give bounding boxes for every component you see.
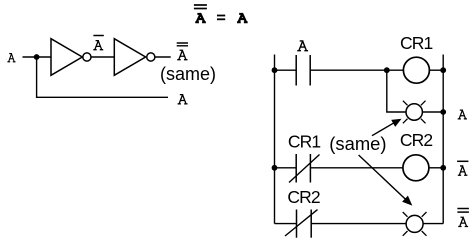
wire contact CR2 to lamp 2 — [311, 223, 406, 225]
junction dot rung1 branch — [384, 67, 390, 73]
right rail of ladder — [442, 55, 444, 224]
node A label right of lamp1 — [458, 110, 467, 119]
contact A (NO) — [296, 55, 310, 86]
wire coil CR1 to right rail — [429, 69, 443, 71]
arrow to lamp 2 — [359, 155, 413, 206]
arrow to lamp 1 — [372, 119, 402, 136]
coil CR2 — [403, 155, 429, 181]
lamp L1 — [403, 101, 426, 124]
title formula: A double-overline = A — [194, 5, 248, 23]
node A-double-bar label right of rung3 — [457, 209, 469, 227]
wire U1 to U2 — [91, 56, 114, 58]
rung 1: wire left rail to contact A — [275, 69, 297, 71]
junction dot rung2 right rail — [440, 165, 446, 171]
junction dot rung2 left rail — [272, 165, 278, 171]
rung 3: wire left rail to contact CR2 — [275, 223, 297, 225]
left rail of ladder — [274, 55, 276, 224]
contact CR2 (NC) — [285, 210, 318, 238]
contact CR1 (NC) — [289, 154, 320, 183]
inverter U1 triangle — [51, 39, 82, 76]
node A-bar label right of rung2 — [457, 161, 468, 175]
wire coil CR2 to right rail — [429, 167, 443, 169]
node A label lower right of gates — [178, 95, 188, 104]
svg-text:CR2: CR2 — [287, 187, 319, 207]
node A input label — [7, 54, 15, 62]
wire branch down to lamp 1 — [387, 70, 406, 112]
coil CR1 — [403, 57, 429, 83]
node A-bar label — [93, 36, 103, 50]
node A-double-bar output label — [177, 43, 188, 60]
wire contact CR1 to coil CR2 — [310, 167, 403, 169]
junction dot rung1 right rail — [440, 67, 446, 73]
label A above contact — [297, 41, 308, 51]
junction dot rung1 left rail — [272, 67, 278, 73]
wire feedback A below gates — [37, 57, 168, 97]
inverter U1 bubble — [83, 53, 91, 61]
lamp L2 — [403, 212, 427, 236]
inverter U2 triangle — [114, 39, 145, 76]
wire input A to inverter U1 — [23, 56, 52, 58]
junction dot input node — [34, 54, 40, 60]
rung 2: wire left rail to contact CR1 — [275, 167, 297, 169]
svg-text:CR1: CR1 — [288, 132, 320, 152]
wire lamp 1 to right rail — [422, 111, 443, 113]
svg-text:(same): (same) — [329, 133, 386, 154]
svg-text:CR1: CR1 — [400, 33, 432, 53]
wire contact A to coil CR1 — [310, 69, 403, 71]
svg-text:CR2: CR2 — [400, 130, 432, 150]
wire U2 output — [155, 56, 171, 58]
wire lamp 2 to right rail — [423, 223, 443, 225]
inverter U2 bubble — [147, 53, 155, 61]
junction dot lamp1 right rail — [440, 109, 446, 115]
svg-text:(same): (same) — [160, 64, 216, 84]
